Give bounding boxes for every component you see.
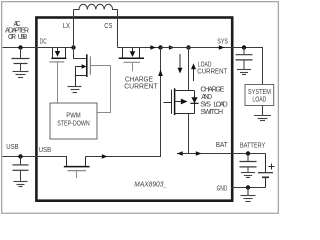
wire: LX pin up to inductor xyxy=(73,10,75,48)
transistor Q2 step-down synchronous rectifier xyxy=(76,54,87,86)
node junction dot at ground xyxy=(246,185,250,189)
arrowhead left on BAT rail xyxy=(177,151,183,156)
transistor Q4 charge and sys load switch xyxy=(164,88,195,115)
annotation arrow up (load current) xyxy=(193,69,195,82)
capacitor C_USB xyxy=(13,157,29,181)
wire: USB pin to USB switch xyxy=(36,156,67,158)
plus sign of battery xyxy=(269,164,275,170)
annotation arrow down (charge to battery) xyxy=(179,54,181,69)
node junction dot at battery top xyxy=(246,151,250,155)
svg-text:BAT: BAT xyxy=(216,142,229,149)
arrowhead right on BAT rail xyxy=(196,151,202,156)
wire: internal DC rail to LX node xyxy=(36,47,74,49)
wire: rail to SYS pin xyxy=(161,47,232,49)
wire: Q4 to BAT rail xyxy=(188,114,190,154)
capacitor C_DC input xyxy=(12,48,30,71)
svg-text:USB: USB xyxy=(18,34,28,41)
wire: DC input from frame to DC pin xyxy=(3,47,37,49)
svg-text:CURRENT: CURRENT xyxy=(197,69,228,76)
svg-text:DC: DC xyxy=(40,38,47,45)
wire: BAT pin to battery xyxy=(231,153,266,155)
node junction dot at DC input xyxy=(18,45,22,49)
block PWM STEP-DOWN xyxy=(50,103,97,139)
border frame xyxy=(2,2,279,214)
svg-text:PWM: PWM xyxy=(66,112,81,119)
ground for C_BAT xyxy=(241,173,255,178)
svg-text:CHARGE: CHARGE xyxy=(125,76,153,83)
ground for C_DC xyxy=(13,72,29,78)
wire: load node down to charge/sys switch xyxy=(188,48,190,91)
node LX junction dot xyxy=(71,45,75,49)
svg-text:SWITCH: SWITCH xyxy=(200,109,223,116)
capacitor C_BAT xyxy=(240,154,257,172)
svg-text:CS: CS xyxy=(104,23,112,30)
wire: charge node down to USB/BAT path xyxy=(160,48,162,157)
svg-text:OR: OR xyxy=(8,34,16,41)
inductor L1 xyxy=(74,4,118,9)
node junction dot CS/charge node xyxy=(158,45,162,49)
svg-text:SYSTEM: SYSTEM xyxy=(248,89,271,96)
gate of Q1 xyxy=(49,61,64,63)
ground for system load xyxy=(254,116,271,121)
diode D1 body diode of Q4 xyxy=(194,91,196,114)
arrowhead on rail after Q3 xyxy=(150,45,156,50)
ground for Q2 source xyxy=(68,87,82,93)
gate of Q3 xyxy=(123,61,140,63)
arrowhead up on charge path xyxy=(158,70,163,77)
ground for C_USB xyxy=(14,182,28,187)
node junction dot SYS/load node xyxy=(186,45,190,49)
ground main xyxy=(241,188,256,202)
block SYSTEM LOAD xyxy=(245,85,274,106)
wire: GND pin to battery negative xyxy=(231,187,266,189)
node junction dot USB input xyxy=(18,154,22,158)
svg-text:CHARGE: CHARGE xyxy=(200,86,224,93)
IC box U1 MAX8903 outline xyxy=(36,18,232,201)
svg-text:MAX8903_: MAX8903_ xyxy=(134,179,167,188)
wire: system load to ground xyxy=(262,106,264,116)
svg-text:LOAD: LOAD xyxy=(198,62,212,69)
arrowhead at SYS pin xyxy=(219,45,225,50)
arrowhead on USB path xyxy=(102,154,108,159)
capacitor C_SYS xyxy=(236,48,253,69)
svg-text:AND: AND xyxy=(201,94,212,101)
wire: inductor to CS pin xyxy=(117,10,119,48)
svg-text:BATTERY: BATTERY xyxy=(240,143,266,150)
wire: PWM box to Q2 gate xyxy=(91,66,111,113)
svg-text:LOAD: LOAD xyxy=(252,96,266,103)
node label: AC ADAPTER OR USB xyxy=(5,21,29,41)
wire: USB switch to charge path xyxy=(86,156,162,158)
battery BT1 xyxy=(258,154,273,188)
ground for C_SYS xyxy=(237,70,251,75)
svg-text:CURRENT: CURRENT xyxy=(124,84,158,91)
wire: BAT rail inside IC xyxy=(177,153,231,155)
wire: SYS pin to system load xyxy=(231,48,263,85)
svg-text:SYS: SYS xyxy=(200,101,211,108)
gate of Q5 xyxy=(68,170,87,172)
label CHARGE AND SYS LOAD SWITCH xyxy=(200,86,227,116)
arrowhead on rail toward SYS xyxy=(169,45,175,50)
gate lead stub of Q5 xyxy=(76,171,78,178)
svg-text:STEP-DOWN: STEP-DOWN xyxy=(57,121,90,128)
gate lead stub of Q3 xyxy=(132,63,134,71)
wire: USB input to USB pin xyxy=(3,156,37,158)
svg-text:LOAD: LOAD xyxy=(213,101,227,108)
node junction dot at SYS output xyxy=(242,45,246,49)
transistor Q3 charge current sense xyxy=(118,47,161,49)
transistor Q5 USB input switch xyxy=(64,157,90,167)
transistor Q1 DC input switch (high-side) xyxy=(51,48,66,59)
svg-text:USB: USB xyxy=(39,147,52,154)
gate of Q2 xyxy=(89,56,91,75)
svg-text:USB: USB xyxy=(6,144,19,151)
svg-text:LX: LX xyxy=(63,23,71,30)
wire: Q1 gate lead to PWM box xyxy=(57,63,59,104)
wire: LX node down to synchronous rectifier xyxy=(74,48,87,59)
svg-text:GND: GND xyxy=(217,186,228,193)
svg-text:SYS: SYS xyxy=(217,38,228,45)
